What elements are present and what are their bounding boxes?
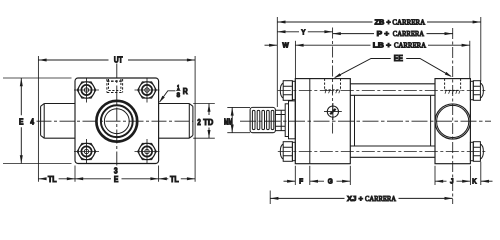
horizontal centerline left view xyxy=(37,120,194,122)
left lug xyxy=(41,104,75,139)
dimension G xyxy=(310,180,351,182)
svg-text:P +: P + xyxy=(377,29,389,38)
dimension E left xyxy=(3,78,72,164)
bottom extension lines left view xyxy=(75,166,159,182)
svg-text:K: K xyxy=(472,177,477,186)
svg-text:4: 4 xyxy=(30,117,34,126)
extension line rod end xyxy=(276,17,278,107)
svg-text:CARRERA: CARRERA xyxy=(393,29,425,38)
dimension P + CARRERA xyxy=(333,33,453,35)
svg-text:CARRERA: CARRERA xyxy=(365,194,397,203)
svg-text:ZB +: ZB + xyxy=(375,17,391,26)
gland retainer plate B xyxy=(289,101,296,139)
svg-text:J: J xyxy=(450,177,454,186)
extension line nut end right xyxy=(480,17,482,82)
tie rod centerline bottom xyxy=(278,151,487,153)
dimension TL right xyxy=(159,178,196,180)
svg-text:8: 8 xyxy=(177,92,181,99)
tie rod nut right top xyxy=(470,81,483,101)
port 1 vertical centerline xyxy=(332,28,334,136)
left cap body xyxy=(295,79,350,164)
port 2 hidden xyxy=(445,79,461,94)
svg-text:CARRERA: CARRERA xyxy=(394,41,427,50)
dimension J xyxy=(435,180,470,182)
main horizontal centerline right view xyxy=(240,120,491,122)
svg-text:W: W xyxy=(282,41,289,50)
cushion screw circle xyxy=(327,106,338,117)
dimension ZB + CARRERA xyxy=(277,21,481,23)
svg-text:XJ +: XJ + xyxy=(347,194,363,203)
dimension XJ + CARRERA xyxy=(270,197,453,199)
extension line cap face left xyxy=(294,41,296,79)
tie rod nut left top xyxy=(280,81,295,101)
tube end seam lines xyxy=(355,95,431,146)
svg-text:TL: TL xyxy=(170,175,179,184)
flange outline xyxy=(75,78,159,164)
dimension F outside arrow xyxy=(284,180,296,182)
dimension LB + CARRERA xyxy=(295,44,469,46)
tie rod nut front bottom-right xyxy=(138,143,157,159)
tie rod nut front top-left xyxy=(77,82,96,98)
thread crests xyxy=(252,110,273,129)
right cap body xyxy=(435,79,470,164)
tie rod nut front top-right xyxy=(138,82,157,98)
central bore circles xyxy=(96,101,137,142)
svg-text:E: E xyxy=(114,175,119,184)
rod thread block xyxy=(250,107,275,132)
svg-text:E: E xyxy=(19,117,24,126)
tie rod top between caps xyxy=(350,84,435,96)
tie rod nut left bottom xyxy=(280,142,295,162)
svg-text:2: 2 xyxy=(197,118,201,127)
svg-text:Y: Y xyxy=(301,27,305,36)
svg-text:UT: UT xyxy=(114,56,123,65)
gland retainer plate A xyxy=(285,104,288,137)
svg-text:R: R xyxy=(183,87,188,96)
dimension MM xyxy=(227,107,250,132)
right lug xyxy=(159,104,193,139)
dimension 2 TD xyxy=(193,104,215,139)
extension line cap rear right xyxy=(469,41,471,79)
svg-text:TL: TL xyxy=(48,175,57,184)
dimension UT xyxy=(38,56,195,182)
vertical centerline left view xyxy=(116,64,118,167)
left cap internal vertical line xyxy=(309,79,311,164)
svg-text:G: G xyxy=(328,177,333,186)
dimension TL left xyxy=(38,178,75,180)
bottom extension lines right view xyxy=(295,162,481,185)
rod neck with wrench flats xyxy=(275,110,285,130)
svg-text:EE: EE xyxy=(394,54,403,63)
svg-text:3: 3 xyxy=(114,167,118,176)
XJ left extension stub xyxy=(269,191,271,205)
tie rod nut right bottom xyxy=(470,142,483,162)
tie rod bottom between caps xyxy=(350,146,435,157)
rear cushion boss circle xyxy=(435,104,470,139)
port 1 hidden xyxy=(325,79,341,94)
dimension W outside arrow xyxy=(265,44,278,46)
tie rod centerline top xyxy=(278,90,487,92)
port 2 vertical centerline xyxy=(452,28,454,204)
svg-text:MM: MM xyxy=(224,118,233,127)
dimension E bottom xyxy=(75,178,159,180)
hidden port square front view xyxy=(107,79,123,93)
svg-text:TD: TD xyxy=(203,118,213,127)
svg-text:CARRERA: CARRERA xyxy=(392,17,425,26)
svg-text:LB +: LB + xyxy=(373,41,391,50)
tie rod nut front bottom-left xyxy=(77,143,96,159)
dimension Y xyxy=(277,31,332,33)
svg-text:F: F xyxy=(299,177,304,186)
